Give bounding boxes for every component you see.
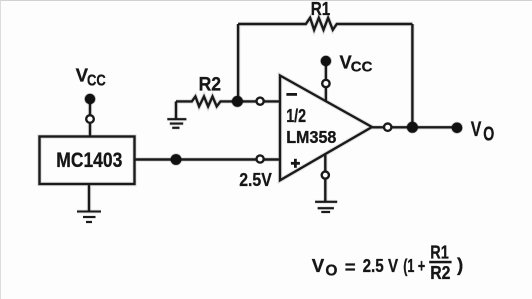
svg-text:2.5V: 2.5V bbox=[239, 169, 272, 190]
svg-text:V: V bbox=[312, 255, 325, 276]
svg-text:R2: R2 bbox=[430, 262, 450, 283]
svg-text:O: O bbox=[325, 263, 337, 280]
svg-text:1/2: 1/2 bbox=[286, 106, 306, 126]
svg-text:LM358: LM358 bbox=[286, 127, 336, 147]
svg-text:V: V bbox=[471, 118, 482, 141]
svg-text:CC: CC bbox=[87, 72, 106, 89]
svg-text:MC1403: MC1403 bbox=[56, 149, 122, 172]
svg-text:(1 +: (1 + bbox=[403, 255, 425, 276]
svg-text:CC: CC bbox=[351, 59, 373, 75]
svg-text:): ) bbox=[457, 254, 463, 275]
svg-text:R1: R1 bbox=[430, 242, 449, 263]
svg-text:O: O bbox=[483, 124, 494, 146]
svg-text:=: = bbox=[345, 257, 356, 278]
svg-text:2.5 V: 2.5 V bbox=[363, 255, 399, 276]
svg-text:R2: R2 bbox=[199, 73, 222, 95]
svg-text:R1: R1 bbox=[311, 0, 331, 19]
